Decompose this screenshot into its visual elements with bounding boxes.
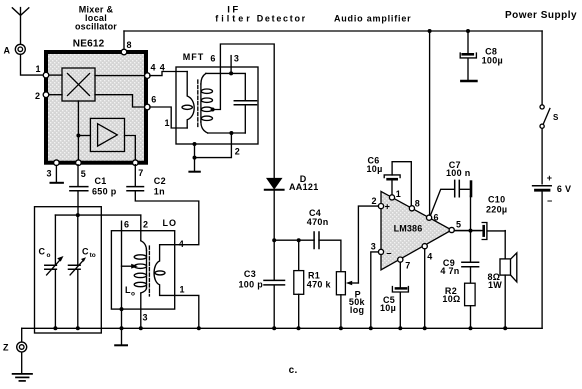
capacitor C7: [431, 160, 471, 231]
svg-text:3: 3: [371, 242, 376, 252]
MFT resonating capacitor: [206, 73, 257, 133]
ground at Z: [13, 352, 32, 381]
pin 4: [145, 62, 156, 78]
svg-text:C3: C3: [244, 269, 256, 279]
svg-text:+: +: [385, 202, 391, 212]
svg-text:S: S: [553, 113, 559, 122]
junction output node: [469, 229, 473, 233]
svg-text:10µ: 10µ: [380, 303, 396, 313]
MFT primary winding: [182, 72, 194, 129]
pin 8: [121, 40, 132, 55]
svg-text:470n: 470n: [307, 217, 329, 227]
svg-text:to: to: [90, 252, 96, 259]
svg-text:MFT: MFT: [183, 52, 205, 62]
svg-text:650 p: 650 p: [92, 186, 117, 196]
junction LO pin1/ground rail: [197, 326, 201, 330]
loudspeaker 8ohm 1W: [488, 231, 517, 329]
junction R1/ground rail: [297, 326, 301, 330]
svg-text:8: 8: [127, 40, 132, 50]
bottom ground rail: [22, 327, 542, 329]
connector A: [4, 44, 26, 55]
svg-text:3: 3: [143, 313, 148, 323]
svg-text:Z: Z: [3, 343, 9, 353]
svg-text:Power Supply: Power Supply: [505, 10, 577, 21]
svg-text:3: 3: [47, 169, 52, 179]
junction C1/Cto: [76, 213, 80, 217]
svg-text:1: 1: [165, 118, 170, 128]
resistor R1: [294, 238, 332, 328]
LM386 pin 8: [409, 199, 420, 211]
junction P/ground rail: [339, 326, 343, 330]
svg-text:o: o: [131, 291, 135, 298]
LM386 pin 5: [449, 220, 461, 233]
svg-text:5: 5: [81, 169, 86, 179]
MFT pin 3 stub: [229, 54, 239, 76]
oscillator coil LO box: [111, 218, 177, 309]
wire LM386 output: [454, 230, 480, 232]
variable capacitor Co: [39, 215, 64, 328]
capacitor C2: [127, 165, 166, 197]
op-amp U1 NE612 mixer/oscillator IC body: [46, 39, 146, 163]
capacitor C3: [239, 240, 285, 328]
svg-text:C: C: [82, 247, 89, 257]
wire pin 3 to ground rail: [371, 252, 379, 328]
svg-text:470 k: 470 k: [307, 280, 332, 290]
junction C3/ground rail: [272, 326, 276, 330]
svg-text:220µ: 220µ: [486, 205, 507, 215]
MFT core (dashed): [197, 80, 199, 128]
svg-text:AA121: AA121: [289, 182, 319, 192]
capacitor C4: [307, 208, 341, 272]
svg-text:C1: C1: [95, 176, 107, 186]
junction LO pin3/ground rail: [139, 326, 143, 330]
ground below C8: [461, 80, 476, 83]
pin 1: [36, 64, 49, 78]
diode D AA121: [265, 174, 319, 240]
svg-text:4 7n: 4 7n: [440, 266, 459, 276]
LM386 pin 4: [422, 244, 433, 262]
ground below LO: [115, 344, 127, 346]
wire pin 8 to top rail: [123, 31, 125, 49]
ground at pin 3: [51, 166, 63, 183]
svg-text:8: 8: [415, 199, 420, 209]
wire mixer to pin6: [95, 95, 145, 107]
svg-text:C2: C2: [154, 176, 166, 186]
wire pin1 to mixer: [48, 74, 62, 76]
wire supply rail to LM386 pin 6: [429, 31, 431, 215]
switch S: [540, 31, 559, 184]
IF transformer MFT box: [176, 52, 258, 144]
svg-text:c.: c.: [289, 365, 298, 376]
LM386 pin 3: [371, 242, 384, 255]
svg-text:10µ: 10µ: [367, 164, 383, 174]
svg-text:5: 5: [456, 220, 461, 230]
wire mixer bottom to pin5: [77, 101, 79, 161]
svg-text:A: A: [4, 46, 11, 56]
svg-text:10Ω: 10Ω: [442, 294, 460, 304]
svg-text:oscillator: oscillator: [75, 22, 117, 32]
svg-text:1n: 1n: [154, 186, 165, 196]
svg-text:4: 4: [151, 62, 156, 72]
capacitor C9: [440, 231, 478, 284]
wire pin4 to MFT primary: [150, 72, 187, 76]
svg-text:100 p: 100 p: [239, 279, 264, 289]
svg-text:C: C: [39, 247, 46, 257]
svg-text:2: 2: [35, 91, 40, 101]
MFT secondary winding: [201, 73, 213, 133]
MFT pin 2 wiring: [193, 131, 241, 160]
capacitor C8: [460, 31, 503, 80]
junction on pin5 wire: [76, 134, 80, 138]
junction pin4/ground rail: [423, 326, 427, 330]
variable capacitor Cto: [69, 215, 96, 328]
LO pin 3 wire: [141, 293, 148, 328]
pin 7: [133, 160, 144, 178]
svg-text:4: 4: [179, 239, 184, 249]
battery 6V: [533, 173, 572, 328]
junction C5/ground rail: [398, 326, 402, 330]
wire C2 to LO pin 4: [135, 191, 199, 244]
pin 3: [47, 160, 60, 179]
connector Z: [3, 328, 27, 352]
svg-text:1W: 1W: [488, 280, 502, 290]
svg-text:6: 6: [124, 220, 129, 230]
wire top supply rail: [124, 30, 542, 32]
node detector output: [272, 238, 276, 242]
svg-text:1: 1: [180, 285, 185, 295]
wire tuned-circuit top node: [55, 214, 140, 216]
junction supply rail to pin 6: [428, 29, 432, 33]
LO primary winding Lo: [125, 241, 147, 298]
junction speaker/ground rail: [503, 326, 507, 330]
wire antenna to pin 1: [21, 54, 45, 75]
wire amp cell to pin7: [125, 136, 136, 161]
junction Cto/ground rail: [76, 326, 80, 330]
svg-text:C10: C10: [488, 195, 505, 205]
svg-text:LM386: LM386: [394, 224, 423, 234]
svg-text:2: 2: [235, 147, 240, 157]
wire mixer to pin4: [95, 75, 145, 77]
pin 5: [76, 160, 87, 179]
oscillator amp cell inside NE612: [90, 118, 124, 151]
junction LO pin6/ground rail: [120, 326, 124, 330]
wire pin6 stub to ground: [121, 309, 123, 345]
svg-text:6 V: 6 V: [557, 184, 571, 194]
svg-text:Audio amplifier: Audio amplifier: [334, 14, 412, 24]
antenna: [12, 8, 29, 45]
svg-text:LO: LO: [163, 218, 178, 228]
LO core (dashed): [148, 246, 150, 296]
svg-text:4: 4: [427, 252, 432, 262]
tuning gang box: [35, 207, 102, 333]
svg-text:100 n: 100 n: [446, 168, 471, 178]
wire detector node: [274, 239, 314, 241]
section label: Mixer & local oscillator: [75, 5, 117, 32]
capacitor C6 between pins 1 and 8: [367, 156, 412, 206]
svg-text:7: 7: [138, 168, 143, 178]
junction pin3/ground rail: [369, 326, 373, 330]
svg-text:2: 2: [143, 220, 148, 230]
svg-text:−: −: [547, 196, 553, 206]
svg-text:NE612: NE612: [73, 39, 105, 50]
section label: IF filter: [215, 5, 253, 24]
MFT pin 6 tap to detector: [210, 44, 274, 179]
svg-text:Detector: Detector: [257, 14, 307, 24]
svg-text:4: 4: [160, 62, 165, 72]
LM386 pin 2: [372, 196, 384, 209]
svg-text:6: 6: [151, 95, 156, 105]
mixer cell inside NE612: [62, 68, 95, 101]
capacitor C5 at pin 7: [380, 262, 408, 328]
svg-text:100µ: 100µ: [482, 56, 503, 66]
pin 6: [145, 95, 157, 110]
LO secondary winding: [154, 245, 175, 296]
svg-text:2: 2: [372, 196, 377, 206]
pin 2: [35, 91, 49, 101]
svg-text:6: 6: [210, 54, 215, 64]
capacitor C1: [70, 165, 117, 215]
LO pin 2 wire: [141, 215, 149, 241]
svg-text:filter: filter: [215, 14, 253, 24]
LM386 pin 1: [389, 189, 401, 200]
wire junction to amp cell: [78, 135, 90, 137]
svg-text:7: 7: [405, 260, 410, 270]
junction Co/ground rail: [53, 326, 57, 330]
LM386 pin 6: [427, 213, 439, 223]
LO pin 6 stub and tap arrow: [120, 220, 138, 312]
svg-text:−: −: [386, 249, 392, 259]
svg-text:o: o: [47, 252, 51, 259]
svg-text:+: +: [547, 173, 553, 183]
wire pin2 to mixer: [48, 94, 62, 96]
wire pin 4 to ground rail: [424, 249, 426, 328]
svg-text:1: 1: [36, 64, 41, 74]
wire pin6 to MFT pin 1: [150, 107, 187, 128]
wire pin 2 input: [377, 205, 379, 207]
svg-text:3: 3: [234, 54, 239, 64]
junction R2/ground rail: [469, 326, 473, 330]
op-amp U2 LM386: [381, 191, 452, 270]
potentiometer P 50k log: [336, 206, 378, 328]
LO pin 1 wire: [175, 285, 199, 329]
ground at MFT: [189, 158, 199, 172]
junction C8 on supply rail: [466, 29, 470, 33]
resistor R2: [442, 283, 475, 328]
svg-text:6: 6: [434, 213, 439, 223]
svg-text:log: log: [350, 305, 364, 315]
capacitor C10: [454, 195, 507, 240]
svg-text:1: 1: [396, 189, 401, 199]
LM386 pin 7: [398, 257, 411, 270]
